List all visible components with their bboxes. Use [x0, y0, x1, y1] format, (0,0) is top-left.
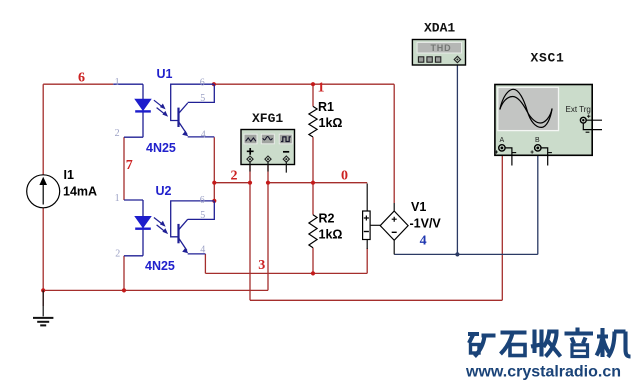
svg-text:1: 1	[115, 77, 120, 88]
U2 base lead pin6	[171, 201, 214, 237]
U1 pin1 stub	[113, 83, 143, 85]
svg-text:A: A	[500, 137, 505, 144]
V1 top and bottom stubs	[393, 203, 395, 254]
U2 photon arrow b	[157, 225, 167, 233]
svg-text:1kΩ: 1kΩ	[319, 228, 343, 242]
XFG1 triangle button	[261, 134, 274, 144]
svg-text:5: 5	[200, 210, 205, 221]
svg-text:-1V/V: -1V/V	[410, 216, 442, 230]
wire XFG1 plus to scope A	[250, 152, 502, 301]
svg-text:5: 5	[200, 93, 205, 104]
svg-text:V1: V1	[411, 200, 426, 214]
svg-text:4N25: 4N25	[146, 141, 176, 155]
junction ground	[41, 288, 45, 292]
distortion analyzer XDA1	[412, 21, 465, 66]
svg-text:4: 4	[201, 129, 206, 140]
function generator XFG1	[241, 111, 295, 173]
U2 collector pin5	[179, 201, 215, 230]
U2 LED lead	[124, 200, 143, 256]
junction net2 XFG1 plus	[248, 181, 252, 185]
svg-text:3: 3	[258, 258, 265, 273]
U2 base bar	[177, 224, 179, 243]
logo char shou	[531, 330, 561, 357]
svg-text:XFG1: XFG1	[252, 111, 283, 126]
svg-text:4: 4	[420, 234, 427, 249]
junction R2 bottom net3	[311, 271, 315, 275]
logo char ji	[597, 328, 631, 357]
svg-text:1kΩ: 1kΩ	[319, 116, 343, 130]
U1 emitter pin4	[179, 122, 215, 137]
wire U2 pin2 to ground rail	[123, 256, 125, 291]
junction R1 top	[311, 82, 315, 86]
XSC1 ext trg terminal	[580, 117, 586, 123]
svg-text:2: 2	[115, 128, 120, 139]
U1 LED diode	[135, 99, 151, 110]
svg-text:1: 1	[115, 193, 120, 204]
svg-text:1: 1	[318, 81, 325, 96]
svg-text:R1: R1	[318, 100, 334, 114]
V1 diamond	[380, 211, 408, 240]
svg-text:R2: R2	[319, 212, 335, 226]
XFG1 sine button	[244, 134, 257, 144]
wire net6 left rail	[43, 84, 113, 290]
U1 base bar	[177, 108, 179, 127]
dependent source V1	[363, 184, 442, 255]
U2 LED diode	[135, 217, 151, 228]
svg-text:XDA1: XDA1	[424, 21, 455, 36]
svg-text:THD: THD	[431, 43, 452, 53]
svg-text:XSC1: XSC1	[531, 51, 565, 66]
V1 link	[370, 224, 380, 226]
svg-text:6: 6	[200, 77, 205, 88]
XSC1 trace B	[500, 96, 552, 123]
junction net4 XDA1	[455, 252, 459, 256]
svg-text:6: 6	[200, 195, 205, 206]
wire net2	[214, 137, 250, 300]
XFG1 plus mark	[247, 148, 254, 155]
wire net7	[123, 137, 125, 200]
U1 LED lead	[124, 84, 143, 137]
V1 control box	[363, 211, 371, 240]
XDA1 buttons	[418, 57, 423, 62]
U2 pin1 stub	[124, 199, 143, 201]
logo char yin	[565, 328, 594, 344]
XFG1 terminals	[247, 156, 253, 162]
XFG1 minus mark	[283, 151, 289, 153]
wire R1 leads	[312, 84, 314, 183]
wire net4 blue	[394, 63, 538, 255]
svg-text:6: 6	[78, 71, 85, 86]
svg-text:0: 0	[341, 169, 348, 184]
svg-text:U2: U2	[156, 184, 172, 198]
svg-text:U1: U1	[157, 67, 173, 81]
XFG1 terminal stubs	[250, 162, 286, 172]
svg-text:I1: I1	[64, 168, 74, 182]
U1 collector pin5	[179, 84, 215, 113]
U1 base lead pin6	[171, 84, 214, 120]
U2 emitter pin4	[179, 238, 206, 254]
resistor R1	[309, 100, 343, 137]
optocoupler U1	[113, 67, 214, 155]
junction U2 pin2 ground rail	[122, 288, 126, 292]
svg-text:www.crystalradio.cn: www.crystalradio.cn	[465, 364, 621, 381]
watermark logo	[468, 328, 631, 358]
junction net2 U1 pin4	[212, 181, 216, 185]
svg-text:B: B	[535, 137, 540, 144]
junction net0 R1 R2	[311, 181, 315, 185]
current source I1	[27, 168, 97, 208]
logo char kuang	[468, 334, 496, 357]
svg-text:2: 2	[231, 169, 238, 184]
wire R2 leads	[312, 183, 314, 274]
svg-text:4N25: 4N25	[145, 259, 175, 273]
XFG1 square button	[279, 134, 292, 144]
wire net3	[205, 248, 367, 273]
XSC1 screen	[498, 87, 559, 130]
wire net0	[43, 161, 367, 306]
svg-text:2: 2	[115, 249, 120, 260]
svg-text:14mA: 14mA	[63, 185, 97, 199]
optocoupler U2	[115, 184, 215, 273]
XDA1 input terminal	[454, 56, 460, 62]
V1 control box stubs	[366, 184, 368, 250]
wire net1 top	[214, 84, 394, 203]
svg-text:4: 4	[200, 245, 205, 256]
svg-text:Ext Trg: Ext Trg	[566, 105, 591, 114]
junction node6/U1 pins	[212, 82, 216, 86]
svg-text:7: 7	[126, 158, 133, 173]
U2 photon arrow a	[154, 218, 164, 226]
oscilloscope XSC1	[495, 51, 602, 166]
U1 photon arrow b	[157, 108, 167, 116]
junction U2 pin6	[212, 199, 216, 203]
XSC1 trace A	[500, 89, 552, 127]
junction net0 XFG1 com	[266, 181, 270, 185]
resistor R2	[309, 212, 343, 248]
U1 photon arrow a	[154, 100, 164, 108]
ground	[33, 290, 53, 325]
logo char shi	[501, 333, 527, 355]
